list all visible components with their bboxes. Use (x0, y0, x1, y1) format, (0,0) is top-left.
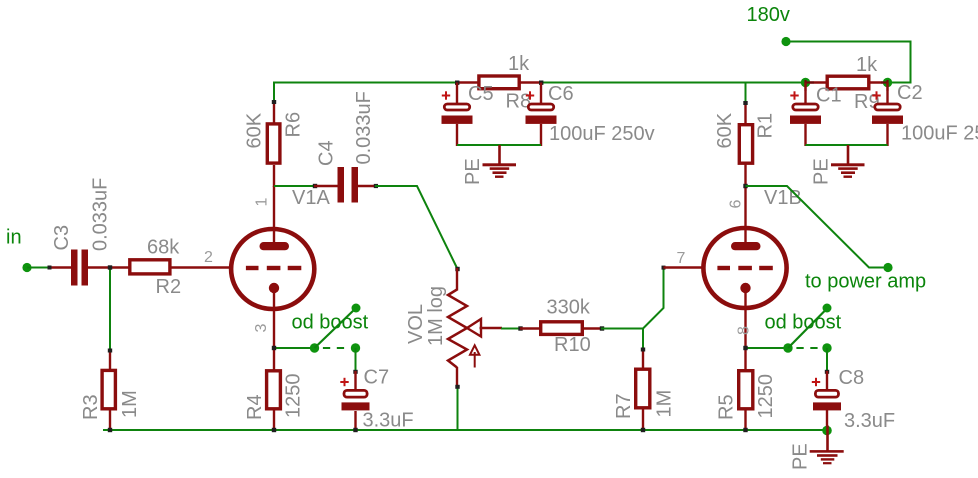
resistor R5 bottom lead (744, 410, 746, 431)
triode V1A envelope (231, 229, 314, 309)
junction dark above R7 (641, 348, 645, 352)
junction dark above R6 (272, 100, 276, 104)
wire overlay across R9 right dot (881, 81, 888, 83)
svg-text:0.033uF: 0.033uF (353, 91, 375, 164)
resistor R3 top lead (109, 350, 111, 371)
svg-text:R2: R2 (156, 276, 182, 298)
triode V1A cathode dot (269, 283, 279, 293)
switch od boost right blade (788, 308, 828, 348)
svg-text:1: 1 (254, 198, 271, 207)
junction dark bus at R5 (743, 428, 747, 432)
ground PE right stem (847, 145, 850, 164)
wire in stub (27, 267, 50, 269)
wire overlay across R9 left dot (806, 81, 815, 83)
triode V1B cathode dot (740, 283, 750, 293)
resistor R2 body (130, 260, 170, 274)
switch od boost right pole dot (783, 343, 792, 352)
capacitor C2 negative plate (872, 116, 903, 124)
junction dark at V1B cathode (743, 346, 747, 350)
wire C4 to VOL pot (375, 186, 458, 269)
triode V1B grid dashes (717, 266, 772, 270)
junction dark at C3 R2 node (108, 265, 112, 269)
junction dark right of R10 (600, 326, 604, 330)
switch od boost left blade (315, 308, 357, 348)
svg-text:C6: C6 (548, 83, 574, 105)
triode V1B cathode lead (744, 288, 746, 370)
capacitor C6 bottom lead (540, 124, 542, 146)
junction dark right of R8 (539, 81, 543, 85)
svg-text:C1: C1 (816, 85, 842, 107)
junction dark bus at R3 (108, 428, 112, 432)
capacitor C4 right lead (358, 185, 376, 187)
svg-text:R6: R6 (283, 112, 305, 138)
svg-text:PE: PE (790, 443, 812, 470)
wire wiper to R10 (501, 328, 521, 330)
wire C1 C2 bottom joining (806, 144, 888, 146)
resistor R7 top lead (642, 349, 644, 369)
junction dot right of R9 (883, 78, 892, 87)
capacitor C4 left lead (314, 185, 338, 187)
resistor R6 top lead (273, 101, 275, 124)
junction dark below pot (455, 385, 459, 389)
resistor R9 leads (806, 81, 828, 83)
resistor R3 bottom lead (109, 410, 111, 431)
svg-text:1k: 1k (856, 54, 878, 76)
svg-text:3: 3 (253, 324, 270, 333)
resistor R6 body (267, 124, 280, 163)
potentiometer VOL bottom lead (456, 367, 458, 388)
svg-text:100uF 250v: 100uF 250v (549, 123, 655, 145)
triode V1B envelope (703, 228, 786, 308)
potentiometer VOL top lead (456, 268, 458, 291)
capacitor C5 plus sign (442, 91, 450, 99)
ground PE left bars (483, 163, 517, 178)
resistor R2 right lead to grid pin 2 (170, 266, 233, 268)
svg-text:C2: C2 (897, 82, 923, 104)
junction dark at pot top (455, 267, 459, 271)
svg-text:C5: C5 (468, 83, 494, 105)
svg-text:3.3uF: 3.3uF (844, 410, 895, 432)
capacitor C2 top lead (886, 83, 888, 104)
ground PE right bars (831, 163, 865, 178)
wire V1B anode to power amp (746, 186, 889, 268)
triode V1A anode lead (273, 186, 275, 244)
capacitor C1 plus sign (790, 91, 798, 99)
resistor R9 body (827, 76, 869, 89)
svg-text:180v: 180v (747, 4, 790, 26)
wire pot bottom to bus (457, 387, 459, 432)
junction dot left of R9 (801, 78, 810, 87)
switch od boost right contact dot (822, 343, 831, 352)
svg-text:PE: PE (462, 158, 484, 185)
capacitor C7 top wire (355, 348, 357, 372)
junction dark above C8 (825, 370, 829, 374)
potentiometer VOL trim arrow (470, 345, 479, 367)
switch od boost right dashed link (796, 347, 817, 349)
svg-text:1250: 1250 (755, 374, 777, 419)
svg-text:1M log: 1M log (425, 286, 447, 346)
resistor R10 right lead (584, 327, 602, 329)
capacitor C7 top lead (354, 371, 356, 390)
potentiometer VOL wiper arrow (467, 319, 481, 337)
svg-text:od boost: od boost (765, 312, 842, 334)
ground PE bottom bars (810, 450, 844, 464)
svg-text:to power amp: to power amp (805, 271, 926, 293)
svg-text:R10: R10 (554, 334, 591, 356)
svg-text:C8: C8 (839, 367, 865, 389)
svg-text:PE: PE (811, 158, 833, 185)
capacitor C5 bottom lead (456, 124, 458, 146)
capacitor C7 bottom lead (354, 411, 356, 431)
capacitor C8 positive plate (815, 390, 838, 397)
triode V1A anode plate (260, 242, 290, 250)
capacitor C8 plus sign (812, 378, 820, 386)
potentiometer VOL zigzag (448, 290, 467, 368)
wire ground bus (103, 429, 827, 431)
junction dark above R3 (108, 349, 112, 353)
svg-text:V1B: V1B (764, 187, 802, 209)
wire grid node up to pin 7 (643, 268, 664, 329)
capacitor C5 negative plate (442, 116, 473, 124)
junction dark at C4 left (313, 184, 317, 188)
capacitor C1 positive plate (793, 104, 818, 110)
capacitor C7 negative plate (342, 402, 370, 410)
svg-text:100uF 250v: 100uF 250v (901, 123, 978, 145)
node 180v dot (781, 37, 790, 46)
svg-text:8: 8 (736, 326, 753, 335)
switch od boost right throw dot (823, 304, 832, 313)
svg-text:330k: 330k (547, 297, 591, 319)
capacitor C6 positive plate (528, 104, 553, 110)
wire V1B cathode node (746, 347, 789, 349)
capacitor C6 plus sign (526, 91, 534, 99)
svg-text:3.3uF: 3.3uF (363, 410, 414, 432)
resistor R7 bottom lead (642, 410, 644, 432)
svg-text:68k: 68k (147, 237, 180, 259)
resistor R7 body (636, 369, 650, 408)
capacitor C6 top lead (540, 83, 542, 104)
resistor R10 body (541, 322, 583, 335)
wire above R1 (745, 83, 747, 104)
capacitor C3 left lead (49, 266, 71, 268)
capacitor C8 bottom lead (826, 410, 828, 431)
wire R10 to V1B grid node (601, 329, 643, 351)
capacitor C7 positive plate (344, 390, 367, 397)
wire top rail middle segment (541, 82, 806, 84)
junction dark bus at R4 (272, 428, 276, 432)
svg-text:60K: 60K (714, 112, 736, 148)
svg-text:1250: 1250 (283, 374, 305, 419)
resistor R1 bottom lead (744, 164, 746, 187)
resistor R6 bottom lead (273, 165, 275, 187)
junction dark above C7 (353, 370, 357, 374)
wire top rail left segment (274, 83, 457, 102)
capacitor C5 top lead (456, 83, 458, 104)
svg-text:V1A: V1A (292, 187, 330, 209)
svg-text:R5: R5 (716, 394, 738, 420)
resistor R1 body (739, 125, 752, 164)
junction dark at pin 7 corner (662, 266, 666, 270)
resistor R8 leads (457, 81, 479, 83)
resistor R3 body (102, 370, 115, 408)
potentiometer VOL wiper lead (480, 327, 503, 329)
capacitor C2 bottom lead (886, 124, 888, 146)
ground PE left stem (498, 145, 501, 164)
junction dark bus at R7 (641, 428, 645, 432)
svg-text:R4: R4 (244, 394, 266, 420)
junction dark at V1B anode node (743, 184, 747, 188)
capacitor C8 top wire (826, 348, 828, 372)
switch od boost left dashed link (323, 347, 344, 349)
svg-text:60K: 60K (244, 112, 266, 148)
svg-text:6: 6 (728, 200, 745, 209)
svg-text:VOL: VOL (405, 304, 427, 344)
wire junction down to R3 (109, 268, 111, 352)
node input dot (22, 263, 31, 272)
svg-text:7: 7 (677, 250, 686, 267)
capacitor C1 bottom lead (804, 124, 806, 146)
wire 180v feed (786, 42, 911, 83)
switch od boost left throw dot (352, 304, 361, 313)
svg-text:R3: R3 (80, 394, 102, 420)
capacitor C3 plates (71, 250, 88, 286)
capacitor C6 negative plate (526, 116, 557, 124)
junction dark at C4 right (374, 184, 378, 188)
capacitor C7 plus sign (340, 378, 348, 386)
junction dark at V1A cathode (272, 346, 276, 350)
junction dark bus at C7 (353, 428, 357, 432)
capacitor C5 positive plate (444, 104, 469, 110)
svg-text:C3: C3 (51, 225, 73, 251)
triode V1A cathode lead (273, 288, 275, 370)
capacitor C2 plus sign (872, 91, 880, 99)
svg-text:1M: 1M (119, 390, 141, 418)
svg-text:1k: 1k (508, 53, 530, 75)
triode V1B grid pin lead (664, 266, 705, 268)
svg-text:C4: C4 (316, 140, 338, 166)
junction dark left of R10 (518, 326, 522, 330)
triode V1A grid dashes (246, 266, 301, 270)
svg-text:in: in (6, 227, 22, 249)
resistor R1 top lead (744, 102, 746, 125)
resistor R10 left lead (520, 327, 541, 329)
svg-text:2: 2 (204, 249, 213, 266)
node to power amp dot (883, 263, 892, 272)
wire V1A anode to C4 (274, 185, 315, 187)
junction dark left of R8 (455, 81, 459, 85)
capacitor C2 positive plate (875, 104, 900, 110)
svg-text:R7: R7 (613, 393, 635, 419)
switch od boost left contact dot (351, 343, 360, 352)
resistor R4 body (267, 371, 281, 409)
capacitor C1 top lead (804, 83, 806, 104)
svg-text:1M: 1M (654, 390, 676, 418)
switch od boost left pole dot (310, 343, 319, 352)
svg-text:R1: R1 (755, 113, 777, 139)
capacitor C4 plates (338, 167, 359, 203)
svg-text:od boost: od boost (292, 312, 369, 334)
capacitor C3 right lead (88, 266, 129, 268)
capacitor C1 negative plate (790, 116, 821, 124)
wire V1A cathode node (274, 347, 315, 349)
svg-text:0.033uF: 0.033uF (90, 178, 112, 251)
resistor R5 body (739, 371, 753, 409)
junction dark above R1 (743, 101, 747, 105)
junction dark at C3 left (48, 266, 52, 270)
resistor R4 bottom lead (273, 410, 275, 431)
triode V1B anode lead (744, 186, 746, 244)
capacitor C8 top lead (826, 371, 828, 389)
triode V1B anode plate (731, 242, 761, 250)
svg-text:R8: R8 (506, 91, 532, 113)
ground PE bottom stem (826, 426, 829, 452)
resistor R8 body (479, 76, 519, 89)
wire C5 C6 bottom joining (457, 144, 541, 146)
capacitor C8 negative plate (813, 402, 841, 410)
svg-text:C7: C7 (364, 367, 390, 389)
junction dot at C8 ground (822, 426, 832, 436)
